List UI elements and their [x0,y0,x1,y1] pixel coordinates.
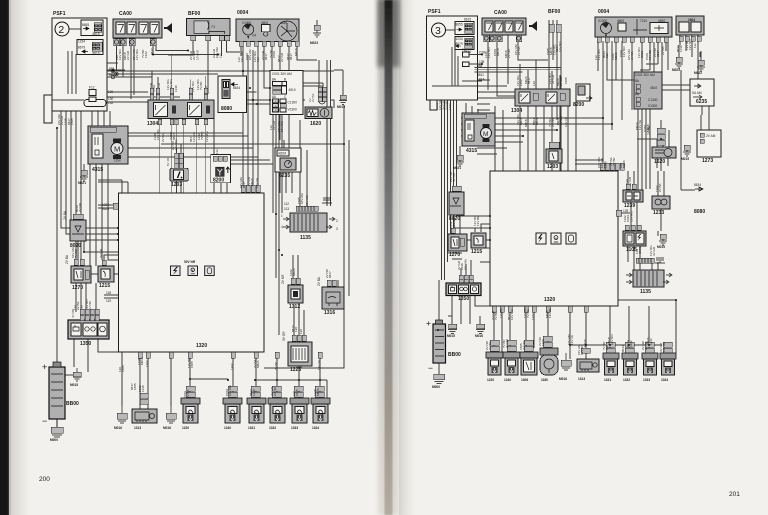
wire 1203 drops [177,144,182,193]
svg-text:2V BA: 2V BA [517,46,521,55]
connector stack above 1620 right [647,125,665,145]
wire big box right bottom exits [494,306,649,359]
svg-text:1320: 1320 [544,297,555,303]
svg-text:3V GR: 3V GR [282,331,286,341]
svg-text:1105: 1105 [626,247,637,253]
wire BF00 pins down [168,41,240,95]
wire C001 right table drops [638,109,650,196]
wire 1225 riser [294,303,304,335]
wire M023 drop [316,20,318,25]
wire 1804 drops [680,35,700,100]
horn button 1180 [540,348,558,382]
svg-text:13V BE: 13V BE [648,50,652,60]
svg-text:13V VE: 13V VE [564,117,568,127]
svg-text:1332: 1332 [269,426,276,430]
wire battery riser right page [439,280,480,324]
svg-text:13V BE: 13V BE [499,308,503,318]
svg-text:2V BA: 2V BA [161,133,165,142]
svg-text:13V RG: 13V RG [280,121,284,132]
wire labels right page pin tags [435,39,697,355]
svg-text:8V JR: 8V JR [166,157,170,166]
wire right loop to bulbs [618,287,676,353]
wire 0004 pins to C001 area [241,46,319,173]
wire 1304 right outputs [520,99,576,171]
svg-text:1505: 1505 [70,118,74,125]
svg-text:8634: 8634 [694,183,701,187]
capacitor at 1135 [322,198,332,203]
icon flash inside 1320 right [536,233,546,244]
svg-text:1215: 1215 [99,283,110,289]
sensor 1225 [282,331,312,373]
svg-text:2V BA: 2V BA [658,183,662,192]
horn unit BF00 [187,11,230,41]
svg-text:8020: 8020 [449,216,460,222]
svg-text:0004: 0004 [598,9,609,15]
wire battery positive riser [57,128,73,375]
svg-text:−: − [428,363,433,373]
ground M015 (right page bottom) [447,324,457,338]
svg-text:2V: 2V [308,98,312,102]
svg-text:13V RG: 13V RG [597,49,601,60]
arrow 8634 (right page) [694,183,703,191]
connector 1313 (right page) [577,359,599,381]
svg-text:M015: M015 [70,383,78,387]
svg-text:8817: 8817 [656,50,660,57]
wire bus from PSF1 right page down [442,100,491,280]
loudspeaker unit CA00 [113,11,162,38]
svg-text:1262: 1262 [448,103,452,110]
svg-text:4600: 4600 [617,19,624,23]
svg-text:13V BE: 13V BE [476,216,480,226]
ground M015 (right page top) [681,145,691,161]
1304 bottom connector pins [158,119,208,125]
svg-text:1332: 1332 [623,378,630,382]
svg-text:13V NO: 13V NO [622,46,626,57]
svg-text:1203: 1203 [547,164,558,170]
svg-text:1220: 1220 [487,378,494,382]
svg-text:M015: M015 [657,245,665,249]
svg-text:1262: 1262 [649,338,653,345]
svg-text:1620: 1620 [310,121,321,127]
svg-text:4315: 4315 [466,148,477,154]
svg-text:CA00: CA00 [119,11,132,17]
instrument cluster 0004 (right page) [595,9,672,37]
fuse F13 right page [463,60,485,67]
svg-text:8020: 8020 [70,243,81,249]
relay 8616 (right page) [455,37,474,55]
battery BB00 (right page) [426,318,461,373]
svg-text:8615: 8615 [464,18,471,22]
diagram number 3 [432,23,446,37]
svg-text:1331: 1331 [604,378,611,382]
icon fuel pump inside 1320 right [551,233,561,244]
wire verticals into 1270 1215 [90,150,118,266]
svg-text:1135: 1135 [300,235,311,241]
svg-text:112: 112 [693,43,697,48]
svg-text:1350: 1350 [80,341,91,347]
svg-text:1: 1 [281,214,283,218]
svg-text:112: 112 [284,202,289,206]
svg-text:3V GR: 3V GR [452,172,456,182]
ground M016 (right page bottom left) [475,324,485,338]
svg-text:13V VE: 13V VE [317,360,321,370]
svg-text:12xx: 12xx [114,159,121,163]
svg-text:8656: 8656 [102,207,109,211]
svg-text:F1: F1 [212,25,216,29]
wire 1620 right risers [661,120,668,171]
svg-text:8817: 8817 [527,77,531,84]
wire 4315 leads [84,102,110,170]
svg-text:8817: 8817 [289,53,293,60]
svg-text:13V RG: 13V RG [205,131,209,142]
ground M022 (right page) [694,60,705,75]
svg-text:1338: 1338 [141,385,145,392]
relay 8615 inside PSF1 [81,20,103,36]
wire horizontal bus mid band left page [98,133,344,164]
svg-text:112: 112 [256,57,260,62]
svg-text:C001 30V AM: C001 30V AM [272,72,292,76]
motor unit 1620 [305,107,332,127]
svg-text:7V BC: 7V BC [494,310,498,320]
svg-text:2V NR: 2V NR [522,340,526,350]
svg-text:1333: 1333 [643,378,650,382]
svg-text:8679: 8679 [78,46,85,50]
svg-text:13V VE: 13V VE [570,335,574,345]
svg-text:7V BC: 7V BC [488,340,492,350]
svg-text:10V AM: 10V AM [305,195,309,206]
wire bus PSF1 right exits [107,67,334,77]
svg-text:119: 119 [106,299,111,303]
svg-text:M015: M015 [337,105,345,109]
wiper motor 4315 [88,126,128,173]
speaker horn icon (right page) [529,21,537,31]
0004 bottom pins right page [597,37,668,42]
svg-text:4510: 4510 [650,86,657,90]
svg-text:2V BA: 2V BA [186,389,190,398]
svg-text:C001: C001 [272,50,276,58]
wire right page mid horizontals [477,80,547,110]
svg-text:M018: M018 [614,52,618,60]
svg-text:13V NO: 13V NO [558,41,562,52]
svg-text:1505: 1505 [133,383,137,390]
wire 1320 bottom exits to lamps [122,352,320,409]
svg-text:1215: 1215 [471,249,482,255]
wire bus from PSF1 down left side [61,108,118,312]
svg-text:13V RG: 13V RG [174,139,178,150]
svg-text:420M: 420M [278,152,286,156]
svg-text:8655: 8655 [456,23,463,27]
svg-text:1505: 1505 [295,389,299,396]
wire 4315 right leads [460,103,478,155]
ignition switch 1350 (right page) [446,275,481,302]
svg-text:6235: 6235 [279,173,290,179]
speaker horn icon [164,23,172,33]
svg-text:M000: M000 [50,438,58,442]
wire CA00 pins down [117,46,219,100]
wire 1304 feeds [152,55,206,89]
svg-text:8200: 8200 [573,102,584,108]
svg-text:C001: C001 [640,50,644,58]
svg-text:120: 120 [605,345,609,350]
svg-text:M026: M026 [256,360,260,368]
svg-text:M026: M026 [316,388,320,396]
svg-text:M016: M016 [163,426,171,430]
pin row at 1320 right bottom exits [492,306,588,312]
svg-text:10V AM: 10V AM [240,51,244,62]
svg-text:8616: 8616 [93,52,100,56]
svg-text:1505: 1505 [121,365,125,372]
wire C001 left drops [273,114,282,335]
svg-text:1233: 1233 [653,210,664,216]
wire 0004 right extra drops [640,42,668,108]
switch unit 1105 [623,225,646,253]
svg-text:84A: 84A [479,78,486,82]
svg-text:C001 30V AM: C001 30V AM [635,73,655,77]
svg-text:V1300: V1300 [648,104,657,108]
wire 8080 to C001 links [247,92,271,104]
ground M023 [310,25,321,45]
svg-text:M015: M015 [447,334,455,338]
svg-text:1262: 1262 [144,51,148,58]
svg-text:1234: 1234 [78,40,85,44]
svg-text:10V AM: 10V AM [228,385,232,396]
svg-text:1220: 1220 [182,426,189,430]
svg-text:2: 2 [336,219,338,223]
ground M000 [50,419,63,442]
ground M015 (near battery) [70,368,81,387]
svg-text:C1300: C1300 [288,101,298,105]
svg-text:3V GR: 3V GR [99,248,103,258]
wire BF00 right bundle [549,20,561,171]
svg-text:M000: M000 [432,385,440,389]
hazard switch 1270 [65,254,91,291]
svg-text:2V BA: 2V BA [644,341,648,350]
wire 1350 right to big box [452,260,490,324]
svg-text:1350: 1350 [458,296,469,302]
relay table C001 (right page) [634,72,662,109]
lamp 1334 [311,398,330,430]
svg-text:8655: 8655 [82,23,89,27]
svg-text:8080: 8080 [694,209,705,215]
ground M021 (right page) [453,155,464,170]
svg-text:M022: M022 [694,71,702,75]
svg-text:10V AM: 10V AM [463,259,467,270]
pin stacks above lamps right page [490,336,672,353]
svg-text:8200: 8200 [213,178,224,184]
svg-text:2V GR: 2V GR [272,120,276,130]
wire 1620/1273 right drops [637,115,701,168]
svg-text:CA00: CA00 [494,10,507,16]
svg-text:7V BC: 7V BC [74,248,78,258]
svg-text:2V GR: 2V GR [559,76,563,86]
svg-text:1313: 1313 [134,426,141,430]
wire right page bulb feed horizontal [570,345,662,353]
connector 1313 [132,409,157,430]
wire horizontal bus mid band right page [461,118,612,164]
svg-text:120: 120 [532,81,536,86]
svg-text:7V BC: 7V BC [526,308,530,318]
svg-text:1320: 1320 [196,343,207,349]
svg-text:8634: 8634 [233,86,240,90]
svg-text:C1300: C1300 [648,98,658,102]
svg-text:F1: F1 [462,48,466,52]
wire M023/M022 stubs right page [679,45,701,60]
svg-text:2V NR: 2V NR [551,117,555,127]
wire 1105/1135 right risers [628,246,658,270]
svg-text:M015: M015 [681,157,689,161]
svg-text:M018: M018 [535,117,539,125]
icon flash inside 1320 [171,266,181,276]
0004 bottom pins [239,41,299,46]
svg-text:M026: M026 [250,178,254,186]
gauge 6235 [275,148,301,179]
book left black edge [0,0,9,515]
svg-text:2V NR: 2V NR [281,274,285,284]
svg-text:132: 132 [108,101,114,105]
svg-text:2V GR: 2V GR [280,52,284,62]
wire 0004 right thin drops [598,41,666,94]
svg-text:M018: M018 [519,117,523,125]
svg-text:1338: 1338 [679,45,683,52]
svg-text:1270: 1270 [449,252,460,258]
wire battery to M000 [56,419,58,427]
svg-text:10V AM: 10V AM [248,49,252,60]
heater unit 1135 [281,213,338,241]
svg-text:13V BE: 13V BE [662,342,666,352]
ground M000 (right page) [432,363,445,389]
gauge 6235 (right page) [690,79,714,106]
svg-text:B: B [284,78,286,82]
svg-text:2V BA: 2V BA [317,276,321,286]
svg-text:6235: 6235 [696,99,707,105]
wire labels left page pin tags [57,47,332,398]
svg-text:141: 141 [273,99,279,103]
icon lock inside 1320 [205,266,215,276]
svg-text:V1300: V1300 [288,108,297,112]
svg-text:BF00: BF00 [188,11,200,17]
svg-text:8080: 8080 [221,106,232,112]
svg-text:0004: 0004 [237,10,248,16]
svg-text:113: 113 [284,207,289,211]
wire 1135 riser [300,60,331,206]
svg-text:13V VE: 13V VE [255,178,259,188]
svg-text:1273: 1273 [702,158,713,164]
svg-text:13V NO: 13V NO [510,309,514,320]
ignition switch 1350 [68,320,109,347]
lamp 1332 (right page) [622,353,638,382]
pin row at 1320 top heavy bundle [241,185,260,192]
svg-text:13V BE: 13V BE [548,308,552,318]
wire 1239/1233 risers [628,171,664,236]
wire 1304 outputs down to 1320 [160,119,214,194]
svg-text:PSF1: PSF1 [428,9,441,15]
lamp 1220 (right page) [486,352,503,382]
svg-text:1338: 1338 [174,85,178,92]
svg-text:2V BA: 2V BA [63,210,67,220]
lamp 1220 [181,398,200,430]
center binding gutter shadow halo [378,0,399,515]
svg-text:1331: 1331 [248,426,255,430]
lamp 1334 (right page) [660,353,676,382]
instrument cluster 0004 [236,10,299,42]
lamp 1240 [223,398,242,430]
ground M021 [78,170,88,185]
connector unit PSF1 (right page) [427,9,478,100]
svg-text:PSF1: PSF1 [53,11,66,17]
svg-text:8817: 8817 [242,181,246,188]
pin row at 1320 right top heavy bundle [600,163,624,170]
wire verticals 1304 right to 1320 [495,106,544,171]
svg-text:13V NO: 13V NO [610,334,614,345]
svg-text:1270: 1270 [72,285,83,291]
control unit 1804 [676,16,704,41]
svg-text:+: + [42,362,47,372]
svg-text:7210: 7210 [640,19,647,23]
tag 128 at 1320 right edge [616,209,630,216]
svg-text:1316: 1316 [324,310,335,316]
svg-text:142: 142 [273,104,279,108]
svg-text:1306: 1306 [521,378,528,382]
svg-text:2V BA: 2V BA [630,51,634,60]
svg-text:1338: 1338 [252,389,256,396]
svg-text:120: 120 [299,329,303,334]
connector plug above 1620 [319,98,325,104]
svg-text:3: 3 [435,25,441,37]
wire right page box left-edge joins [448,248,490,262]
CA00 bottom connector plugs [114,39,157,46]
svg-text:1262: 1262 [531,313,535,320]
svg-text:M016: M016 [475,334,483,338]
icon lock inside 1320 right [566,233,576,244]
diode unit 8020 (right page) [449,186,464,222]
capacitor at 1135 right page [655,258,665,263]
center binding gutter top dark flare [377,0,400,67]
svg-text:8811: 8811 [109,73,116,77]
svg-text:BB00: BB00 [448,352,461,358]
svg-text:1804: 1804 [688,18,695,22]
ground M016 (right page, mid bottom) [559,353,571,381]
switch 1203 [166,153,188,188]
relay 1312 [281,274,303,310]
svg-text:2V NR: 2V NR [505,338,509,348]
wire 0004 right heavy feeds [603,41,632,171]
svg-text:1180: 1180 [541,378,548,382]
svg-text:1505: 1505 [603,161,607,168]
svg-text:1304: 1304 [147,121,158,127]
svg-text:13V NO: 13V NO [118,49,122,60]
connector 1239 [623,184,643,209]
wire 8020 and 1270 risers [76,241,118,260]
svg-text:13V NO: 13V NO [487,47,491,58]
svg-text:2V NR: 2V NR [88,300,92,310]
battery BB00 [42,362,79,426]
svg-text:BF00: BF00 [548,9,560,15]
connector row above 1135 right [636,258,654,263]
relay plate 1304 [147,100,214,127]
svg-text:M: M [483,131,488,138]
sensor 8200 (right page) [573,84,592,108]
svg-text:112: 112 [605,53,609,58]
wire labels 120/130/132 [108,90,114,105]
connector stack above 1350 [71,308,99,321]
wire bus PSF1 right page exits [462,64,561,82]
1304 top connector pins [150,88,208,100]
svg-text:143: 143 [273,108,279,112]
svg-text:4510: 4510 [289,88,296,92]
svg-text:2V NR: 2V NR [507,48,511,58]
svg-text:1225: 1225 [290,367,301,373]
svg-text:2V GR: 2V GR [126,50,130,60]
